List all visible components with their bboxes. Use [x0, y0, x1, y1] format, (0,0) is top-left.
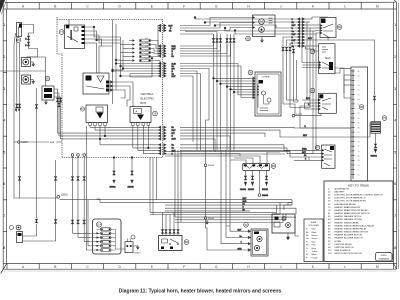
- svg-text:75: 75: [358, 151, 360, 153]
- svg-text:S1001: S1001: [262, 189, 269, 191]
- item number 87: [315, 145, 320, 150]
- svg-text:30: 30: [358, 71, 360, 73]
- svg-text:HEATED WINDSCREEN SWITCH: HEATED WINDSCREEN SWITCH: [335, 231, 369, 234]
- svg-text:75: 75: [358, 123, 360, 125]
- svg-text:HEATED REAR WINDOW: HEATED REAR WINDOW: [335, 206, 362, 209]
- svg-text:F3: F3: [146, 46, 148, 48]
- frame grid letters: [22, 4, 379, 269]
- item number 40 circled (relay 76): [282, 217, 286, 221]
- svg-text:S1064: S1064: [262, 195, 269, 197]
- svg-text:Bk/R: Bk/R: [172, 139, 177, 141]
- svg-text:HEATED WASHER JET RH: HEATED WASHER JET RH: [335, 218, 362, 221]
- svg-text:7: 7: [3, 214, 5, 218]
- svg-text:S1063: S1063: [21, 142, 28, 144]
- ground at horn H2: [31, 80, 35, 85]
- svg-text:HEATED WINDSCREEN RELAY: HEATED WINDSCREEN RELAY: [335, 227, 367, 230]
- wires top rows from trunk rightwards: [194, 17, 298, 34]
- svg-text:31: 31: [358, 90, 360, 92]
- svg-text:Brown: Brown: [312, 234, 319, 237]
- wires mirror trunk risers: [283, 60, 321, 116]
- svg-text:S1001: S1001: [110, 187, 117, 189]
- wires fuse feed risers: [112, 20, 129, 105]
- svg-text:HORN: HORN: [335, 241, 342, 243]
- svg-text:B: B: [54, 4, 56, 8]
- svg-text:7: 7: [394, 214, 396, 218]
- svg-text:White: White: [312, 253, 318, 256]
- svg-text:HEATED REAR WINDOW SWITCH: HEATED REAR WINDOW SWITCH: [335, 212, 370, 215]
- svg-text:M: M: [376, 4, 379, 8]
- svg-text:Bn: Bn: [172, 145, 174, 147]
- item number 98 (circled on strip): [359, 105, 364, 110]
- trunk connector pins upper: [159, 45, 177, 78]
- item number 114 (circled in fusebox): [96, 222, 101, 227]
- svg-text:FORD: FORD: [381, 255, 387, 257]
- fuse F1: [129, 38, 151, 42]
- wire and tag above HRW element: [373, 96, 375, 122]
- wire riser S1044/S1045: [205, 150, 207, 228]
- wires into relay 85: [305, 17, 328, 34]
- svg-text:31: 31: [358, 146, 360, 148]
- svg-text:COLOURS: COLOURS: [308, 225, 319, 227]
- svg-text:Bk: Bk: [304, 155, 306, 157]
- wire Bk/Y top run: [159, 18, 253, 28]
- svg-text:HEATED WASHER JET LH: HEATED WASHER JET LH: [335, 215, 362, 218]
- svg-text:3: 3: [3, 87, 5, 91]
- svg-text:F: F: [183, 4, 185, 8]
- svg-text:F6: F6: [146, 58, 148, 60]
- wires LH mirror pins: [213, 77, 256, 99]
- svg-text:1: 1: [394, 23, 396, 27]
- strip outline: [351, 67, 368, 181]
- svg-text:6: 6: [394, 182, 396, 186]
- wires into ignition switch: [302, 46, 351, 98]
- wires CEB rows continuing right: [180, 127, 351, 160]
- item number 76 (CEB relay B): [153, 111, 158, 116]
- svg-text:15: 15: [358, 132, 360, 134]
- wire colours box: [304, 219, 323, 262]
- wires RH mirror pins: [206, 150, 252, 251]
- svg-text:50: 50: [358, 85, 360, 87]
- horn H1 (item 95): [22, 58, 31, 67]
- splice circles under CEB: [71, 154, 85, 157]
- svg-text:30: 30: [358, 127, 360, 129]
- wires relay K2 terminals right: [87, 81, 134, 198]
- svg-text:ELECTRIC DOOR MIRROR CONTROL S: ELECTRIC DOOR MIRROR CONTROL SWITCH: [335, 195, 383, 197]
- CEB relay B: [130, 107, 151, 126]
- key title: [348, 184, 369, 188]
- horn H2 (item 95): [22, 75, 31, 84]
- svg-text:Bk/Y: Bk/Y: [172, 76, 177, 78]
- key item list: [328, 187, 383, 255]
- svg-text:50: 50: [358, 174, 360, 176]
- svg-text:2: 2: [394, 55, 396, 59]
- fuse F5: [129, 54, 151, 58]
- relay pack K2 (engine run relay): [83, 73, 109, 94]
- svg-text:50: 50: [358, 141, 360, 143]
- fuse F4: [129, 50, 151, 54]
- svg-text:Bk: Bk: [172, 56, 174, 58]
- heater blower motor (item 88): [253, 15, 276, 37]
- svg-text:ELECTRIC DOOR MIRROR LH: ELECTRIC DOOR MIRROR LH: [335, 198, 366, 200]
- heater blower relay (item 86): [159, 236, 182, 251]
- relay 76 pins/ground: [277, 202, 300, 239]
- item number 75: [382, 116, 387, 121]
- svg-text:CENTRAL: CENTRAL: [141, 92, 154, 96]
- svg-text:HEATED WINDSCREEN BLACK RELAY: HEATED WINDSCREEN BLACK RELAY: [335, 224, 375, 227]
- svg-text:2: 2: [3, 55, 5, 59]
- svg-text:S1004: S1004: [240, 189, 247, 191]
- central electric box label: [141, 92, 155, 105]
- item number 81: [310, 88, 315, 93]
- connector pins set A: [180, 32, 222, 151]
- svg-text:30: 30: [358, 156, 360, 158]
- splice S1022: [292, 114, 303, 117]
- svg-text:F4: F4: [146, 50, 148, 52]
- svg-text:GRANADA: GRANADA: [379, 258, 390, 261]
- svg-text:IGNITION RELAY: IGNITION RELAY: [335, 243, 353, 246]
- wires mirror trunk to right edge: [282, 37, 298, 104]
- wires relay K1 outputs: [69, 20, 121, 74]
- svg-text:50: 50: [358, 113, 360, 115]
- svg-text:F5: F5: [146, 54, 148, 56]
- svg-text:WIRE: WIRE: [311, 222, 317, 224]
- svg-text:HEATED REAR WINDOW RELAY: HEATED REAR WINDOW RELAY: [335, 209, 369, 212]
- page corner wedge top-left: [0, 0, 7, 15]
- svg-text:5: 5: [3, 150, 5, 154]
- wires bottom-left component: [23, 205, 56, 241]
- svg-text:BATTERY: BATTERY: [335, 191, 345, 194]
- item number 20 (battery): [16, 38, 21, 43]
- svg-text:F2: F2: [146, 42, 148, 44]
- svg-text:4: 4: [3, 119, 5, 123]
- svg-text:31: 31: [358, 118, 360, 120]
- wires CEB left rows into trunk lower pins: [112, 57, 159, 77]
- svg-text:L: L: [344, 4, 346, 8]
- in-line connector (item 25): [125, 239, 133, 253]
- wires CEB outputs rows: [58, 126, 177, 156]
- svg-text:Bk: Bk: [172, 148, 174, 150]
- central electric box dotted boundary: [57, 17, 163, 158]
- item number above connector: [131, 235, 135, 239]
- connector pins set B: [226, 34, 235, 150]
- svg-text:ELECTRIC: ELECTRIC: [141, 97, 155, 101]
- svg-text:ELECTRIC DOOR MIRROR RH: ELECTRIC DOOR MIRROR RH: [335, 201, 367, 203]
- ground S1002b: [128, 157, 135, 189]
- ground G1002 below HRW element: [371, 133, 378, 157]
- fuse F6: [129, 58, 151, 62]
- item number 89: [271, 164, 276, 169]
- item number 19: [10, 226, 14, 230]
- splice S1044: [204, 164, 215, 167]
- wires feeding mini fusebox: [73, 198, 91, 250]
- wires trunk pins to in-line connectors: [180, 34, 255, 150]
- svg-text:MINI FUSEBOX: MINI FUSEBOX: [335, 250, 351, 252]
- wire riser x55 horn feed lower: [54, 160, 56, 241]
- svg-text:Bk/Y: Bk/Y: [172, 130, 177, 132]
- svg-text:F1: F1: [146, 38, 148, 40]
- svg-text:Purple: Purple: [312, 256, 319, 259]
- wires CEB bottom drops: [71, 156, 85, 224]
- heated windscreen relay (item 85): [320, 18, 336, 39]
- frame grid numbers: [3, 23, 396, 250]
- mid horizontal rows (x165-300): [165, 152, 290, 156]
- svg-text:ENGINE RUN RELAY: ENGINE RUN RELAY: [335, 203, 357, 206]
- svg-text:MAX: MAX: [325, 56, 331, 60]
- svg-text:15: 15: [358, 76, 360, 78]
- svg-text:Green: Green: [312, 237, 319, 240]
- svg-text:114: 114: [97, 223, 102, 227]
- wire riser x36 with tag: [35, 88, 37, 205]
- svg-text:IGNITION SWITCH: IGNITION SWITCH: [335, 247, 354, 249]
- wires into strip from left: [300, 69, 370, 138]
- heated windscreen switch (item 87): [322, 145, 335, 168]
- lower bundle rows: [60, 198, 292, 222]
- wire battery to fuse link down: [15, 37, 21, 113]
- svg-text:Bk: Bk: [172, 127, 174, 129]
- item number 77 (relay K1): [59, 30, 64, 35]
- svg-text:G1003: G1003: [134, 253, 140, 255]
- svg-text:6: 6: [3, 182, 5, 186]
- svg-text:HEATED WINDSCREEN: HEATED WINDSCREEN: [335, 221, 360, 224]
- wire battery positive feed: [22, 25, 38, 58]
- svg-text:1: 1: [3, 23, 5, 27]
- risers to HW switch rows: [294, 22, 316, 160]
- cigar lighter / clock (bottom left): [16, 225, 22, 242]
- blower switch legs & grounds: [240, 171, 269, 198]
- wires into blower switch top: [231, 152, 281, 164]
- wires into HRW switch: [300, 98, 321, 116]
- wires multi-function switch to CEB: [54, 89, 62, 139]
- ground at horn H1: [31, 62, 35, 67]
- mini fusebox outline and fuses: [90, 219, 125, 254]
- svg-text:3: 3: [394, 87, 396, 91]
- svg-text:LH MIR: LH MIR: [262, 77, 270, 79]
- svg-text:MULTI-FUNCTION SWITCH: MULTI-FUNCTION SWITCH: [335, 253, 363, 255]
- ground at multi-function switch: [44, 100, 47, 105]
- item number 97: [310, 49, 315, 54]
- heated rear window element (item 75): [371, 122, 381, 134]
- svg-text:8: 8: [3, 246, 5, 250]
- svg-text:B: B: [54, 265, 56, 269]
- svg-text:S1044: S1044: [208, 165, 215, 167]
- splice S1063: [14, 141, 62, 144]
- fuse F3: [129, 46, 151, 50]
- wire left riser B to bottom: [18, 112, 20, 198]
- svg-text:Bk/B: Bk/B: [50, 142, 55, 144]
- LH door mirror (item 36): [255, 72, 281, 116]
- item number 53: [244, 223, 249, 228]
- svg-text:A: A: [136, 110, 138, 114]
- svg-text:S1003: S1003: [248, 189, 255, 191]
- item number 85: [337, 25, 342, 30]
- wire Bk/Y long run to HRW element: [305, 38, 375, 96]
- svg-text:Bk: Bk: [243, 209, 245, 211]
- title caption: [119, 289, 282, 295]
- svg-text:ALTERNATOR: ALTERNATOR: [335, 187, 350, 190]
- ground at blower motor: [260, 37, 263, 43]
- svg-text:Yellow: Yellow: [312, 251, 318, 253]
- wire Bk top run: [159, 28, 253, 33]
- key to items box: [324, 181, 393, 262]
- relay pack K1 (horn relay, item 57): [65, 25, 85, 49]
- item number 36 (LH mirror): [248, 70, 253, 75]
- wires fuse outputs to trunk: [151, 26, 163, 64]
- wires into HW switch: [294, 149, 322, 161]
- svg-text:30: 30: [358, 160, 360, 162]
- svg-text:E: E: [151, 265, 153, 269]
- svg-text:W: W: [306, 254, 308, 256]
- svg-text:8: 8: [394, 246, 396, 250]
- heated rear window switch (item 81): [318, 93, 336, 113]
- multi-function switch (item 124): [42, 86, 54, 100]
- relay 86 top pins: [161, 212, 179, 235]
- svg-text:Diagram 11: Typical horn, hea: Diagram 11: Typical horn, heater blower,…: [119, 289, 282, 295]
- svg-text:F: F: [183, 265, 185, 269]
- heated rear window relay (item 76): [272, 214, 295, 233]
- heater blower switch w/ resistors (item 89): [243, 164, 270, 171]
- ignition switch (item 97): [319, 44, 335, 74]
- svg-text:G1002: G1002: [371, 156, 378, 158]
- svg-text:75: 75: [358, 94, 360, 96]
- item number 86: [184, 240, 189, 245]
- ground near RH mirror riser: [205, 220, 208, 225]
- splice S1045: [204, 217, 215, 220]
- RH door mirror (item 53): [251, 229, 268, 256]
- svg-text:Bn: Bn: [243, 204, 245, 206]
- svg-text:M: M: [376, 265, 379, 269]
- svg-text:HEATER BLOWER SWITCH: HEATER BLOWER SWITCH: [335, 237, 363, 240]
- svg-text:15: 15: [358, 165, 360, 167]
- ground S1001: [110, 157, 117, 189]
- battery B1 (item 20): [17, 23, 26, 37]
- left risers joining bundle: [88, 150, 181, 223]
- svg-text:S1002: S1002: [61, 195, 68, 197]
- item number 95 (horns): [45, 76, 50, 81]
- svg-text:Bk: Bk: [169, 30, 171, 32]
- item number 57 (relay K2): [80, 107, 84, 111]
- CEB relay A: [86, 105, 108, 126]
- wire bends into RH mirror risers: [283, 200, 296, 223]
- wire horn feed vertical: [0, 57, 46, 86]
- ground G1003 right of connector: [133, 245, 140, 255]
- svg-text:E: E: [151, 4, 153, 8]
- fuse F2: [129, 42, 151, 46]
- svg-text:HEATER BLOWER MOTOR: HEATER BLOWER MOTOR: [335, 234, 363, 237]
- svg-text:S1022: S1022: [296, 114, 303, 116]
- svg-text:BOX: BOX: [141, 101, 147, 105]
- svg-text:S1002: S1002: [128, 187, 135, 189]
- splice S1002: [57, 195, 68, 199]
- wire main battery negative run: [14, 33, 57, 198]
- svg-text:4: 4: [394, 119, 396, 123]
- wire B top run: [159, 23, 253, 30]
- svg-text:KEY TO ITEMS: KEY TO ITEMS: [348, 184, 369, 188]
- item number 88 (blower): [246, 36, 251, 41]
- svg-text:L: L: [344, 265, 346, 269]
- svg-text:30: 30: [358, 99, 360, 101]
- ford granada plate: [376, 253, 393, 262]
- wire rows to right-edge connectors: [292, 18, 306, 48]
- svg-text:5: 5: [394, 150, 396, 154]
